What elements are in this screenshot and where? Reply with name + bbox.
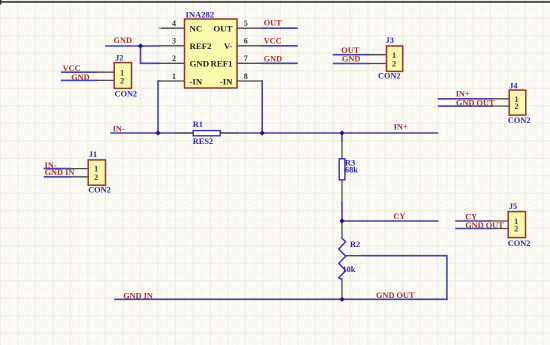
svg-text:GND OUT: GND OUT <box>376 291 415 300</box>
svg-text:68k: 68k <box>345 165 358 174</box>
svg-text:1: 1 <box>172 72 176 81</box>
svg-text:CON2: CON2 <box>115 90 138 99</box>
svg-text:2: 2 <box>515 102 519 111</box>
svg-text:NC: NC <box>190 24 203 34</box>
svg-text:J4: J4 <box>509 81 517 90</box>
svg-text:2: 2 <box>514 225 518 234</box>
svg-text:2: 2 <box>120 77 124 86</box>
svg-text:GND OUT: GND OUT <box>465 221 504 230</box>
svg-text:GND: GND <box>71 73 89 82</box>
svg-text:GND: GND <box>342 55 360 64</box>
svg-text:REF1: REF1 <box>211 59 233 69</box>
svg-text:OUT: OUT <box>264 19 282 28</box>
svg-text:GND: GND <box>114 36 132 45</box>
svg-text:-IN: -IN <box>190 76 203 86</box>
svg-text:4: 4 <box>172 19 176 28</box>
svg-text:REF2: REF2 <box>190 41 213 51</box>
svg-text:GND IN: GND IN <box>45 168 75 177</box>
svg-text:6: 6 <box>244 37 248 46</box>
svg-text:IN+: IN+ <box>394 123 408 132</box>
svg-text:J2: J2 <box>115 54 123 63</box>
svg-text:J3: J3 <box>386 36 394 45</box>
svg-text:1: 1 <box>392 51 396 60</box>
svg-text:7: 7 <box>244 54 248 63</box>
svg-text:CY: CY <box>465 212 477 221</box>
svg-text:10k: 10k <box>343 265 356 274</box>
svg-text:GND: GND <box>264 54 282 63</box>
svg-text:IN-: IN- <box>113 124 125 133</box>
svg-text:V-: V- <box>224 41 233 51</box>
svg-text:5: 5 <box>244 19 248 28</box>
svg-text:IN+: IN+ <box>456 90 470 99</box>
svg-text:R1: R1 <box>193 120 203 129</box>
svg-text:VCC: VCC <box>264 36 282 45</box>
svg-text:2: 2 <box>172 54 176 63</box>
svg-text:-IN: -IN <box>220 76 233 86</box>
svg-text:2: 2 <box>94 173 98 182</box>
svg-text:R2: R2 <box>350 240 360 249</box>
svg-text:CY: CY <box>393 212 405 221</box>
svg-text:3: 3 <box>172 37 176 46</box>
svg-text:J5: J5 <box>509 202 517 211</box>
svg-text:CON2: CON2 <box>378 72 401 81</box>
svg-text:CON2: CON2 <box>508 239 531 248</box>
svg-text:2: 2 <box>392 60 396 69</box>
svg-text:CON2: CON2 <box>508 116 531 125</box>
svg-text:OUT: OUT <box>213 24 232 34</box>
svg-text:GND: GND <box>190 59 210 69</box>
svg-text:INA282: INA282 <box>186 10 215 20</box>
svg-text:CON2: CON2 <box>88 186 111 195</box>
svg-text:GND OUT: GND OUT <box>456 98 495 107</box>
svg-text:GND IN: GND IN <box>123 292 153 301</box>
svg-text:8: 8 <box>244 72 248 81</box>
svg-text:RES2: RES2 <box>193 137 213 146</box>
svg-text:J1: J1 <box>89 150 97 159</box>
